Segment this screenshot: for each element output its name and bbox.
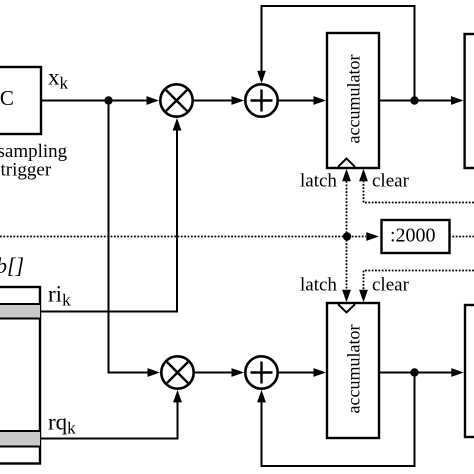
clear dotted wire (bottom accumulator)	[359, 271, 474, 303]
svg-text:accumulator: accumulator	[344, 325, 364, 414]
latch dotted wire (top accumulator)	[342, 169, 351, 237]
clear dotted wire (top accumulator)	[359, 169, 474, 203]
wire rik to multiplier M1	[40, 118, 181, 312]
divider box :2000	[366, 220, 474, 253]
feedback wire ACC2 to A2	[257, 373, 414, 467]
svg-text:clear: clear	[372, 275, 410, 296]
wire ACC1 output to register R1	[379, 96, 464, 105]
svg-text:ADC: ADC	[0, 86, 14, 110]
svg-text:accumulator: accumulator	[344, 55, 364, 144]
svg-text:b[]: b[]	[0, 253, 24, 278]
feedback wire ACC1 to A1	[257, 6, 414, 101]
wire M2 to adder A2	[194, 368, 244, 377]
wire xk: ADC to multiplier M1	[41, 96, 159, 105]
svg-text:clear: clear	[372, 171, 410, 192]
latch dotted wire (bottom accumulator)	[342, 237, 351, 303]
ADC box U1	[0, 67, 41, 134]
node ACC1 output junction	[410, 96, 418, 104]
multiplier M2	[161, 356, 193, 388]
label sampling trigger	[0, 141, 68, 181]
accumulator ACC1	[327, 33, 379, 168]
node ACC2 output junction	[410, 368, 418, 376]
svg-text:latch: latch	[300, 171, 337, 192]
dotted control line (horizontal)	[0, 236, 366, 238]
wire xk branch down to multiplier M2	[109, 101, 161, 377]
svg-text:trigger: trigger	[1, 160, 52, 181]
wire ACC2 output to register R2	[379, 368, 464, 377]
wire A2 to accumulator ACC2	[278, 368, 326, 377]
adder A2	[245, 356, 277, 388]
register box R2	[465, 305, 474, 437]
multiplier M1	[160, 84, 192, 116]
accumulator ACC2	[327, 303, 379, 438]
table row rqk (gray band)	[0, 431, 40, 447]
wire rqk to multiplier M2	[40, 390, 182, 439]
svg-text:latch: latch	[300, 275, 337, 296]
node xk junction	[104, 96, 112, 104]
register box R1	[465, 34, 474, 168]
svg-text::2000: :2000	[390, 225, 436, 247]
adder A1	[245, 84, 277, 116]
table row rik (gray band)	[0, 304, 40, 319]
reference table box b[]	[0, 287, 40, 464]
wire M1 to adder A1	[193, 96, 244, 105]
wire A1 to accumulator ACC1	[278, 96, 326, 105]
label xk	[48, 65, 69, 93]
node dotted junction	[343, 232, 351, 240]
